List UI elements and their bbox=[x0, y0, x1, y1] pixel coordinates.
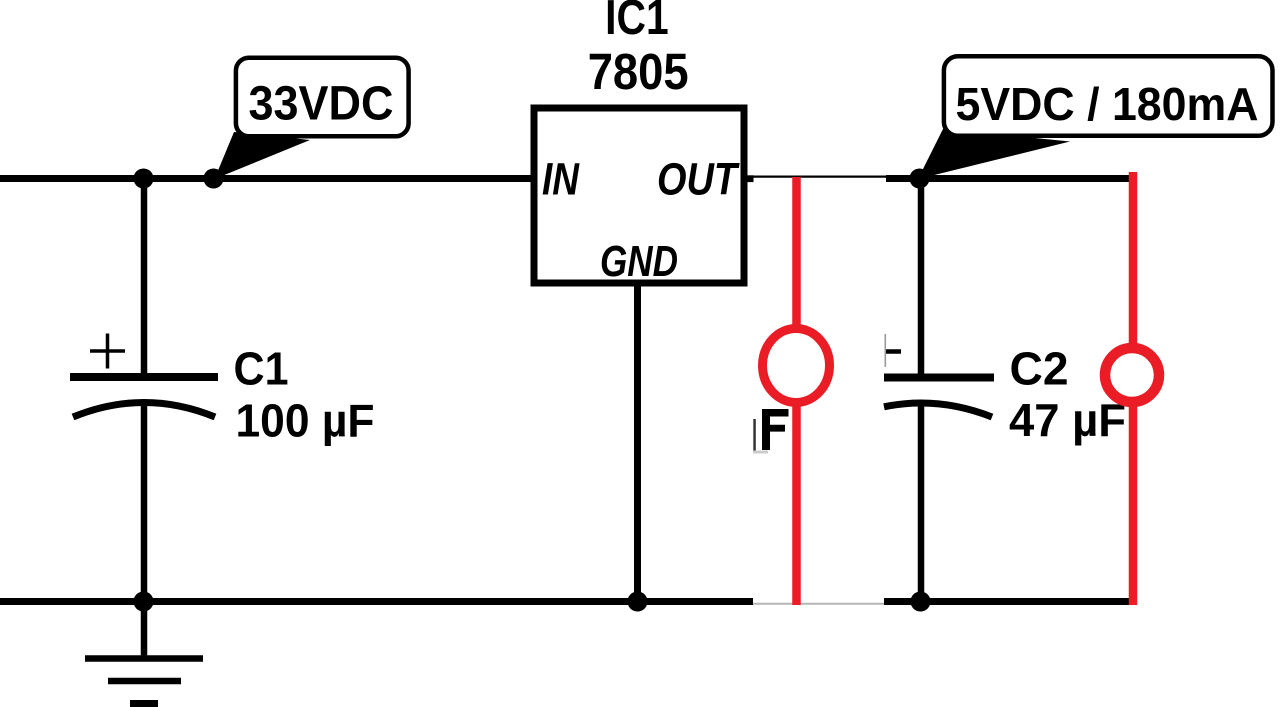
svg-text:C2: C2 bbox=[1010, 343, 1069, 395]
svg-text:33VDC: 33VDC bbox=[249, 78, 394, 131]
svg-text:IC1: IC1 bbox=[605, 0, 669, 45]
svg-text:OUT: OUT bbox=[657, 154, 740, 205]
svg-text:GND: GND bbox=[600, 237, 678, 286]
svg-text:IN: IN bbox=[542, 154, 580, 205]
svg-text:47 µF: 47 µF bbox=[1009, 394, 1126, 446]
svg-text:100 µF: 100 µF bbox=[236, 395, 375, 447]
svg-text:C1: C1 bbox=[234, 343, 289, 395]
svg-text:5VDC / 180mA: 5VDC / 180mA bbox=[956, 78, 1259, 130]
svg-text:7805: 7805 bbox=[588, 43, 689, 100]
